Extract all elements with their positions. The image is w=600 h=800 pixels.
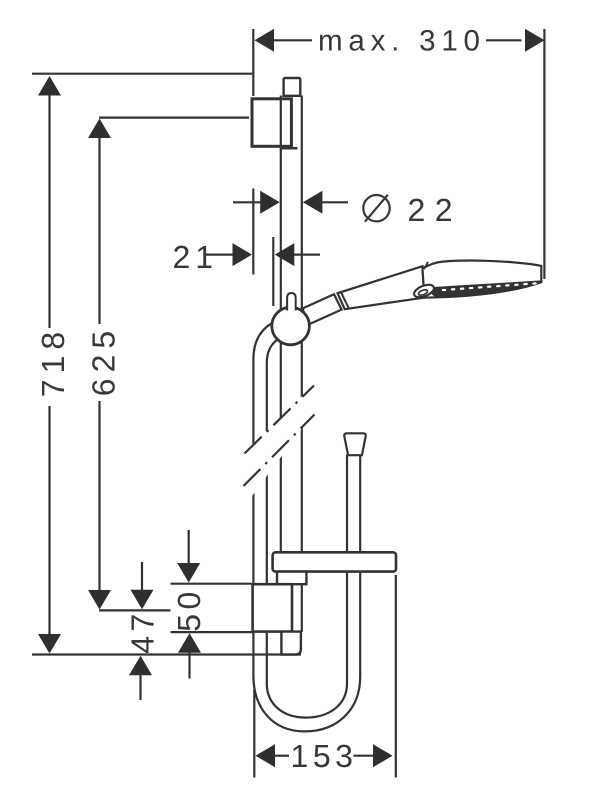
- svg-text:153: 153: [291, 738, 358, 774]
- svg-text:22: 22: [408, 192, 463, 228]
- svg-text:21: 21: [173, 239, 219, 275]
- svg-text:625: 625: [86, 325, 122, 396]
- svg-text:max. 310: max. 310: [318, 25, 486, 58]
- svg-text:718: 718: [35, 326, 71, 397]
- svg-text:47: 47: [125, 609, 161, 654]
- svg-text:50: 50: [171, 587, 207, 632]
